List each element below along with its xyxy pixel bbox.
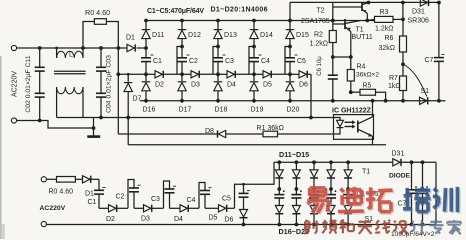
node cap C5 top junction bbox=[288, 45, 292, 49]
label C7 top bbox=[425, 57, 434, 64]
resistor R4 bbox=[347, 57, 354, 92]
wire step-up into col3 bbox=[213, 47, 218, 75]
capacitor C7 top bbox=[434, 1, 444, 101]
label D8 bbox=[205, 128, 214, 135]
wire lower chain input bbox=[46, 178, 56, 180]
resistor R6 bbox=[400, 19, 407, 64]
svg-text:S1: S1 bbox=[421, 88, 430, 95]
svg-text:R3: R3 bbox=[380, 9, 389, 16]
wire input riser to LED line bbox=[117, 48, 119, 134]
diode D19 lower bbox=[327, 206, 335, 225]
label C2 lower bbox=[116, 193, 125, 200]
diode D3 bbox=[182, 71, 218, 78]
diode D5 lower bbox=[205, 205, 235, 212]
wire AC top line bbox=[16, 47, 146, 49]
label C7 lower bbox=[398, 201, 407, 208]
wire boost riser bbox=[332, 3, 334, 21]
node bottom rail junction col5 bbox=[288, 99, 292, 103]
capacitor C03 bbox=[96, 48, 106, 71]
svg-text:R5: R5 bbox=[363, 82, 372, 89]
svg-text:D18: D18 bbox=[215, 107, 228, 114]
node rail junction R2 bbox=[331, 19, 335, 23]
wire top output rail bbox=[146, 20, 375, 22]
label D1-D20 type bbox=[211, 7, 268, 14]
polarity bridge C3 bbox=[318, 190, 320, 192]
svg-text:C5: C5 bbox=[297, 58, 306, 65]
polarity mark C1 lower bbox=[103, 187, 106, 189]
svg-text:SR306: SR306 bbox=[408, 18, 430, 25]
polarity mark C3 lower bbox=[173, 185, 176, 187]
node bridge rail col3 bbox=[312, 160, 316, 164]
label C4 bbox=[261, 58, 270, 65]
node cap C1 top junction bbox=[144, 46, 148, 50]
label S1 bbox=[421, 88, 430, 95]
svg-text:1.2kΩ: 1.2kΩ bbox=[310, 40, 328, 47]
label T2 bbox=[317, 8, 325, 15]
inductor L common-mode choke bbox=[54, 48, 86, 118]
label D16 bbox=[143, 107, 156, 114]
svg-text:D1: D1 bbox=[126, 35, 135, 42]
LED inside optocoupler bbox=[332, 118, 344, 135]
label D13 bbox=[224, 32, 237, 39]
node cap C4 top junction bbox=[252, 45, 256, 49]
wire ground riser bbox=[93, 118, 95, 129]
transistor T1 bbox=[333, 19, 360, 57]
wire bottom return rail bbox=[140, 100, 439, 102]
label SR306 bbox=[408, 18, 430, 25]
capacitor C3 lower bbox=[165, 189, 175, 208]
svg-text:C2: C2 bbox=[116, 193, 125, 200]
node junction choke-left bbox=[55, 47, 58, 50]
resistor R0 lower bbox=[57, 177, 76, 183]
svg-text:R2: R2 bbox=[314, 32, 323, 39]
label C5 lower bbox=[222, 196, 231, 203]
diode D17 bbox=[178, 74, 186, 101]
wire C03 mid tap bbox=[118, 73, 146, 75]
svg-text:C4: C4 bbox=[261, 58, 270, 65]
capacitor C2 lower bbox=[129, 188, 139, 208]
svg-text:C6 10μ: C6 10μ bbox=[317, 56, 323, 76]
node bottom rail junction col3 bbox=[216, 99, 220, 103]
diode D18 lower bbox=[310, 206, 318, 225]
label R0 4.60 bbox=[85, 8, 110, 17]
polarity bridge C5 bbox=[352, 190, 354, 192]
node rail junction col3 bbox=[216, 19, 220, 23]
polarity bridge C1 bbox=[283, 190, 285, 192]
label R5 bbox=[363, 82, 372, 89]
label D11-D15 lower bbox=[279, 150, 309, 159]
label DIODE bbox=[389, 173, 410, 180]
svg-text:R0 4.60: R0 4.60 bbox=[49, 189, 74, 196]
svg-text:1kΩ: 1kΩ bbox=[388, 83, 401, 90]
node D7 tee on bus bbox=[126, 116, 130, 120]
svg-text:D4: D4 bbox=[174, 216, 183, 223]
svg-text:1.2kΩ: 1.2kΩ bbox=[375, 26, 393, 33]
diode D2 bbox=[146, 71, 182, 78]
diode D6 bbox=[290, 71, 311, 78]
label D1 lower bbox=[85, 191, 94, 198]
polarity mark C5 lower bbox=[247, 190, 250, 192]
polarity mark C2 bbox=[187, 54, 190, 56]
wire step cell4 bbox=[199, 183, 205, 209]
label C02 0.01x2uF C11 bbox=[25, 55, 32, 112]
node junction R0-left/choke-right bbox=[81, 46, 85, 50]
label D11 bbox=[152, 32, 164, 39]
svg-text:D4: D4 bbox=[227, 82, 236, 89]
label C1 bbox=[153, 58, 162, 65]
diode D3 lower bbox=[134, 205, 164, 212]
label D1 bbox=[126, 35, 135, 42]
wire R1/D8 line bbox=[118, 133, 331, 135]
svg-text:D11: D11 bbox=[152, 32, 164, 39]
label D20 bbox=[287, 107, 300, 114]
node bridge bottom col5 bbox=[346, 223, 350, 227]
diode D16 lower bbox=[275, 206, 283, 225]
svg-text:D5: D5 bbox=[209, 215, 218, 222]
capacitor C6 bbox=[328, 57, 338, 103]
label C1 lower bbox=[88, 199, 97, 206]
polarity mark C3 bbox=[223, 54, 226, 56]
wire step cell3 bbox=[164, 181, 170, 208]
label R7 value bbox=[388, 83, 401, 90]
diode D31 bbox=[420, 0, 428, 6]
label R4 bbox=[357, 64, 366, 71]
diode D15 bbox=[286, 21, 294, 47]
node R7 bottom on rail bbox=[401, 99, 405, 103]
node top wire junction C03 bbox=[99, 46, 103, 50]
wire LED anode line bbox=[0, 0, 1, 1]
label R6 value bbox=[379, 45, 396, 52]
label D15 bbox=[296, 32, 309, 39]
node bridge bottom col2 bbox=[295, 223, 299, 227]
label D3 lower bbox=[141, 215, 150, 222]
capacitor C4 lower bbox=[200, 191, 210, 209]
svg-text:C7: C7 bbox=[398, 201, 407, 208]
light arrows bbox=[345, 120, 356, 128]
diode D1 lower bbox=[75, 176, 99, 183]
label R3 value bbox=[375, 26, 393, 33]
wire step-up into col5 bbox=[285, 47, 290, 75]
label D5 lower bbox=[209, 215, 218, 222]
wire C1 top lead bbox=[98, 179, 100, 190]
label D4 bbox=[227, 82, 236, 89]
svg-text:D8: D8 bbox=[205, 128, 214, 135]
label R2 bbox=[314, 32, 323, 39]
node cap C3 bottom junction bbox=[216, 72, 220, 76]
svg-text:C2: C2 bbox=[189, 58, 198, 65]
polarity mark C5 bbox=[295, 54, 298, 56]
diode D20 lower bbox=[344, 206, 352, 225]
label R7 bbox=[389, 75, 398, 82]
node rail junction col1 bbox=[144, 19, 148, 23]
svg-text:C4: C4 bbox=[187, 197, 196, 204]
ground bbox=[87, 128, 100, 137]
svg-text:D31: D31 bbox=[392, 151, 405, 158]
node rail junction T1/T2 bbox=[365, 19, 369, 23]
node bridge bottom col1 bbox=[277, 223, 281, 227]
capacitor C3 bbox=[213, 47, 223, 75]
svg-text:L: L bbox=[69, 52, 73, 59]
wire D6 output drop bbox=[309, 74, 313, 119]
node C02 bottom junction bbox=[38, 119, 42, 123]
diode D11 bbox=[142, 21, 150, 49]
polarity bridge C4 bbox=[335, 190, 337, 192]
node riser crosses mid wire bbox=[116, 72, 120, 76]
node bridge bottom col3 bbox=[312, 223, 316, 227]
label D6 lower bbox=[225, 216, 234, 223]
polarity mark C2 lower bbox=[138, 184, 141, 186]
diode D20 bbox=[286, 74, 294, 101]
label C5 bbox=[297, 58, 306, 65]
node bottom rail junction col2 bbox=[180, 99, 184, 103]
label C6 bbox=[317, 56, 323, 76]
label D31 bbox=[412, 8, 425, 15]
label C04 0.01x2uF C03 bbox=[106, 55, 113, 113]
svg-text:DIODE: DIODE bbox=[389, 173, 410, 180]
svg-text:C7: C7 bbox=[425, 57, 434, 64]
wire R2-R4 link bbox=[333, 56, 351, 58]
svg-text:D5: D5 bbox=[263, 82, 272, 89]
watermark text bbox=[304, 187, 461, 235]
capacitor C02 bbox=[35, 71, 45, 120]
polarity mark C4 lower bbox=[209, 187, 212, 189]
polarity C8 lower bbox=[426, 186, 428, 188]
node ground junction bbox=[92, 126, 96, 130]
label AC220V input bbox=[12, 71, 19, 97]
capacitor C2 bbox=[177, 47, 187, 75]
capacitor bridge C4 bbox=[326, 189, 336, 206]
svg-text:D3: D3 bbox=[141, 215, 150, 222]
resistor R1 bbox=[263, 131, 278, 137]
svg-text:R7: R7 bbox=[389, 75, 398, 82]
label C8 lower bbox=[416, 201, 425, 208]
svg-text:D13: D13 bbox=[224, 32, 237, 39]
diode D12 bbox=[178, 21, 186, 47]
svg-text:C02 0.01×2μF C11: C02 0.01×2μF C11 bbox=[25, 55, 32, 112]
node T2 collector on top line bbox=[367, 1, 371, 5]
node bridge mid col4 bbox=[329, 187, 333, 191]
diode D15 lower bbox=[344, 162, 352, 189]
node cap C4 bottom junction bbox=[252, 72, 256, 76]
diode D1 bbox=[127, 44, 135, 51]
wire bridge top rail bbox=[274, 161, 436, 163]
svg-text:D20: D20 bbox=[287, 107, 300, 114]
capacitor C8 lower bbox=[417, 160, 428, 226]
svg-text:C04 0.01×2μF C03: C04 0.01×2μF C03 bbox=[106, 55, 113, 113]
diode D17 lower bbox=[292, 206, 300, 225]
node junction R0-right bbox=[116, 46, 120, 50]
svg-text:R4: R4 bbox=[357, 64, 366, 71]
node bottom rail junction col4 bbox=[252, 99, 256, 103]
node bridge mid col1 bbox=[277, 187, 281, 191]
label D4 lower bbox=[174, 216, 183, 223]
svg-text:C1: C1 bbox=[88, 199, 97, 206]
capacitor C7 lower bbox=[406, 160, 417, 226]
node bridge rail col5 bbox=[346, 160, 350, 164]
resistor R7 bbox=[400, 64, 407, 101]
node R4 bottom junction bbox=[349, 90, 353, 94]
label D3 bbox=[191, 82, 200, 89]
diode D19 bbox=[250, 74, 258, 101]
node C04 bottom junction bbox=[99, 116, 103, 120]
label R6 bbox=[385, 35, 394, 42]
node R2 bottom junction bbox=[331, 55, 335, 59]
phototransistor inside optocoupler bbox=[358, 115, 373, 140]
svg-text:R6: R6 bbox=[385, 35, 394, 42]
capacitor C4 bbox=[249, 47, 259, 75]
wire AC bottom bbox=[16, 121, 93, 129]
wire opto emitter drop bbox=[372, 140, 374, 145]
node R6 top junction bbox=[401, 18, 405, 22]
diode D4 bbox=[218, 71, 254, 78]
label C1-C5 values bbox=[147, 8, 204, 15]
diode D13 lower bbox=[310, 162, 318, 189]
label D31 lower bbox=[392, 151, 405, 158]
thyristor S1 bbox=[420, 97, 428, 104]
terminal AC bottom-left bottom bbox=[41, 221, 46, 226]
label R3 bbox=[380, 9, 389, 16]
wire bridge right edge bbox=[435, 162, 437, 224]
label D2 lower bbox=[106, 216, 115, 223]
svg-text:D19: D19 bbox=[251, 107, 264, 114]
svg-text:T1: T1 bbox=[362, 169, 370, 176]
node bridge mid col3 bbox=[312, 187, 316, 191]
svg-text:D17: D17 bbox=[179, 107, 192, 114]
wire step-up into col2 bbox=[177, 47, 182, 75]
label C3 lower bbox=[151, 196, 160, 203]
capacitor C1 lower bbox=[94, 190, 104, 208]
capacitor bridge C3 bbox=[309, 189, 319, 206]
label D17 bbox=[179, 107, 192, 114]
terminal AC input bottom bbox=[11, 118, 16, 123]
svg-text:2SA1785: 2SA1785 bbox=[301, 18, 330, 25]
svg-text:1000pF/64V×2: 1000pF/64V×2 bbox=[391, 231, 435, 238]
label AC220V lower bbox=[40, 205, 66, 212]
diode D6 lower vertical bbox=[240, 210, 248, 227]
svg-text:C5: C5 bbox=[222, 196, 231, 203]
label T1 lower bbox=[362, 169, 370, 176]
node bottom rail junction col1 bbox=[144, 99, 148, 103]
node cap C2 bottom junction bbox=[180, 72, 184, 76]
terminal AC bottom-left top bbox=[41, 177, 46, 182]
label R2 value bbox=[310, 40, 328, 47]
node top wire junction C11 bbox=[38, 46, 42, 50]
svg-text:AC220V: AC220V bbox=[12, 71, 19, 97]
diode D12 lower bbox=[292, 162, 300, 189]
svg-text:T2: T2 bbox=[317, 8, 325, 15]
svg-text:D14: D14 bbox=[260, 32, 273, 39]
svg-text:C1~C5:470μF/64V: C1~C5:470μF/64V bbox=[147, 8, 204, 15]
diode D13 bbox=[214, 21, 222, 47]
wire chain to bridge bbox=[242, 162, 274, 185]
resistor R0 bbox=[83, 19, 118, 48]
svg-text:D11~D15: D11~D15 bbox=[279, 150, 309, 159]
wire top boost line bbox=[290, 2, 439, 20]
wire step-up into col4 bbox=[249, 47, 254, 75]
polarity mark C4 bbox=[259, 54, 262, 56]
diode D2 lower bbox=[99, 205, 128, 212]
label D12 bbox=[188, 32, 201, 39]
label R1 36kQ bbox=[257, 125, 284, 132]
capacitor C11 bbox=[35, 48, 45, 71]
transistor T2 bbox=[333, 3, 369, 21]
node bridge rail col1 bbox=[277, 160, 281, 164]
capacitor C04 bbox=[96, 71, 106, 117]
label L bbox=[69, 52, 73, 59]
resistor R2 bbox=[329, 21, 336, 58]
svg-text:D16: D16 bbox=[143, 107, 156, 114]
label S1 lower bbox=[365, 216, 374, 223]
svg-text:C3: C3 bbox=[151, 196, 160, 203]
terminal AC input top bbox=[11, 45, 16, 50]
node rail junction col4 bbox=[252, 19, 256, 23]
node rail junction col2 bbox=[180, 19, 184, 23]
diode D14 bbox=[250, 21, 258, 47]
diode D16 bbox=[142, 74, 150, 101]
label R0 4.60 lower bbox=[49, 189, 74, 196]
label C3 bbox=[225, 58, 234, 65]
label D6 bbox=[299, 82, 308, 89]
wire bottom long line bbox=[128, 144, 386, 146]
resistor R5 bbox=[351, 89, 386, 101]
label 2SA1785 bbox=[301, 18, 330, 25]
capacitor C5 lower bbox=[239, 193, 249, 209]
svg-text:C1: C1 bbox=[153, 58, 162, 65]
svg-text:D12: D12 bbox=[188, 32, 201, 39]
label R4 value bbox=[356, 71, 379, 78]
diode D8 bbox=[218, 130, 226, 137]
svg-text:D1: D1 bbox=[85, 191, 94, 198]
capacitor bridge C1 bbox=[274, 189, 284, 206]
capacitor C1 bbox=[141, 48, 151, 74]
svg-text:D2: D2 bbox=[155, 82, 164, 89]
label D18 bbox=[215, 107, 228, 114]
node cap C3 top junction bbox=[216, 45, 220, 49]
svg-text:D1~D20:1N4006: D1~D20:1N4006 bbox=[211, 7, 268, 14]
node S1 cathode junction bbox=[437, 99, 446, 103]
svg-text:32kΩ: 32kΩ bbox=[379, 45, 396, 52]
diode D18 bbox=[214, 74, 222, 101]
capacitor bridge C2 bbox=[291, 189, 301, 206]
wire step cell5 bbox=[235, 184, 244, 208]
scan edge artifact bbox=[0, 56, 2, 239]
wire step cell2 bbox=[128, 180, 134, 209]
node bridge bottom col4 bbox=[329, 223, 333, 227]
label D19 bbox=[251, 107, 264, 114]
svg-text:36kΩ×2: 36kΩ×2 bbox=[356, 71, 379, 78]
node cap C5 bottom junction bbox=[288, 72, 292, 76]
svg-text:D2: D2 bbox=[106, 216, 115, 223]
polarity C7 lower bbox=[415, 186, 417, 188]
node bridge mid col5 bbox=[346, 187, 350, 191]
label 1000pF bbox=[391, 231, 435, 238]
op-amp U1 optocoupler box bbox=[334, 115, 374, 140]
node R5 on rail bbox=[384, 99, 388, 103]
wire R3 riser to top line bbox=[401, 1, 405, 20]
diode D31 lower bbox=[393, 159, 401, 166]
node cap C1 bottom junction bbox=[144, 72, 148, 76]
label D5 bbox=[263, 82, 272, 89]
svg-text:D31: D31 bbox=[412, 8, 425, 15]
label D16-D20 lower bbox=[279, 227, 310, 236]
svg-text:D6: D6 bbox=[299, 82, 308, 89]
diode D7 bbox=[124, 73, 132, 145]
polarity mark C1 bbox=[151, 54, 154, 56]
resistor R3 bbox=[367, 16, 403, 22]
label D7 bbox=[133, 96, 142, 103]
node R6-R7 junction bbox=[401, 62, 405, 66]
wire opto collector riser bbox=[371, 99, 375, 115]
